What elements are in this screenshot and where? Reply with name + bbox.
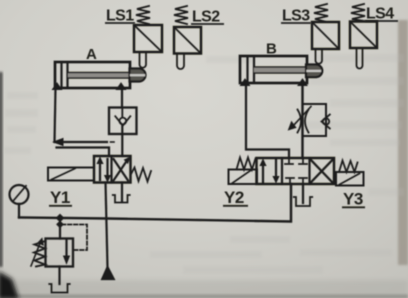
svg-text:Y1: Y1 [50,188,70,207]
relief valve body [46,239,74,267]
valve Y3 right spring [339,161,358,173]
relief valve adjust arrow [31,239,43,267]
cylinder A body [55,62,130,88]
wire horizontal with arrow [54,139,115,146]
svg-text:LS2: LS2 [192,9,220,26]
valve Y1 body [94,156,131,183]
wire cylinder B rod port through flow control [301,86,303,158]
bleed-through ghost text [4,54,404,274]
cylinder A right port arrow [117,83,126,90]
limit switch LS2 spring [174,6,188,24]
valve Y2 Y3 body [257,158,335,184]
bottom edge shadow [0,295,408,298]
valve Y2 left spring [237,158,256,170]
label LS4 [365,6,398,23]
pressure bus line [19,184,291,222]
relief valve internal arrow [64,240,70,264]
svg-text:Y3: Y3 [343,190,363,209]
valve center box blocked ports [285,159,307,184]
limit switch LS4 plunger legs [357,48,363,69]
svg-text:LS1: LS1 [106,8,134,25]
wire bus to relief valve [59,224,61,239]
bottom broad shading [0,280,408,298]
tank under Y2 valve [294,197,312,206]
cylinder B rod end cap [306,65,322,78]
pressure gauge [10,185,29,204]
svg-text:LS4: LS4 [366,6,394,23]
valve Y1 left box arrows [97,158,110,182]
pilot line dashed [62,225,87,251]
relief valve spring [34,241,46,267]
cylinder B body [240,56,307,83]
limit switch LS3 plunger legs [316,49,323,64]
wire lower horizontal to valve port [57,148,110,157]
cylinder A left port arrow [53,83,62,90]
flow control throttle arcs [298,110,309,133]
wire cylinder B cap port to valve [246,86,289,158]
tank under relief valve [49,284,69,293]
svg-text:LS3: LS3 [282,8,310,25]
limit switch LS4 spring [351,4,365,21]
junction node pilot tap [57,221,63,227]
limit switch LS1 box [134,25,162,52]
wire Y1 T port [121,183,123,202]
right edge shadow band [398,20,408,265]
limit switch LS3 spring [314,4,328,22]
solenoid Y1 [48,168,94,181]
limit switch LS1 spring [136,6,150,24]
svg-text:Y2: Y2 [224,188,244,207]
cylinder B rod [254,67,308,73]
label Y1 [49,188,72,207]
flow control valve bypass box [303,104,327,136]
bypass check ball and seat [322,115,330,129]
junction node relief tap [56,214,63,221]
label LS2 [191,9,224,26]
label Y3 [342,190,365,209]
wire relief valve to tank [58,267,60,285]
solenoid Y3 [336,172,364,186]
check valve V1 ball and seat [115,108,130,126]
svg-text:A: A [86,46,97,63]
wire cylinder A cap port down [55,88,56,142]
pressure source triangle [102,266,115,280]
svg-text:B: B [266,41,277,58]
cylinder B right port arrow [298,79,307,86]
wire Y1 P port to bus and source [106,183,108,268]
limit switch LS1 plunger legs [140,52,147,68]
limit switch LS2 box [174,27,201,54]
valve Y1 crossed arrows [114,158,130,181]
wire gauge to bus [18,204,20,218]
cylinder A rod end cap [130,69,146,82]
wire Y2 T port [302,184,304,203]
label Y2 [223,188,248,207]
limit switch LS2 plunger legs [177,54,184,70]
limit switch LS4 box [350,22,377,49]
label LS1 [105,8,135,25]
limit switch LS3 box [312,22,339,49]
bottom-left dark blob [0,271,19,298]
valve right box crossed arrows [311,160,333,183]
tank under Y1 [113,195,130,203]
solenoid Y2 [229,170,258,185]
valve left box arrows [260,160,279,183]
wire cylinder A rod port down to check valve [121,88,123,108]
wire check valve to Y1 valve [121,126,123,156]
valve Y1 return spring [131,168,152,182]
flow control adjust arrow [289,107,312,130]
cylinder B left port arrow [241,79,250,86]
check valve V1 box [109,108,137,135]
label LS3 [281,8,311,25]
left edge dark strip [0,72,2,267]
cylinder A rod [68,73,132,79]
